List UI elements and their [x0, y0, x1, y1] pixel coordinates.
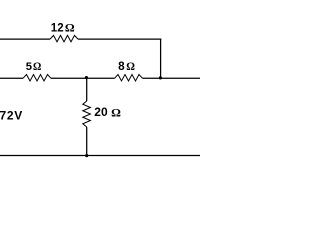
wire stem from node B down to R 20ohm	[86, 78, 88, 101]
svg-text:5: 5	[26, 61, 32, 73]
resistor R2 5ohm	[23, 75, 51, 82]
wire middle-right (R 8ohm to right edge)	[143, 77, 201, 79]
wire top-left (left edge to R 12ohm)	[0, 38, 50, 40]
node C junction dot	[159, 76, 162, 79]
svg-text:12: 12	[51, 23, 64, 35]
node D junction dot	[85, 154, 88, 157]
svg-text:Ω: Ω	[126, 61, 135, 73]
svg-text:20: 20	[94, 105, 108, 119]
wire stem from R 20ohm down to bottom wire	[86, 127, 88, 156]
svg-text:Ω: Ω	[111, 107, 121, 119]
wire right vertical drop	[160, 39, 162, 79]
wire middle (R 5ohm through node B to R 8ohm)	[51, 77, 115, 79]
svg-text:Ω: Ω	[65, 23, 75, 35]
svg-text:72V: 72V	[0, 109, 23, 123]
resistor R3 8ohm	[115, 75, 143, 82]
node B junction dot	[85, 76, 88, 79]
wire middle-left (left edge to R 5ohm)	[0, 77, 23, 79]
svg-text:8: 8	[118, 60, 125, 73]
wire bottom	[0, 155, 200, 157]
resistor R4 20ohm (vertical)	[83, 101, 91, 127]
svg-text:Ω: Ω	[33, 61, 41, 73]
resistor R1 12ohm	[50, 35, 78, 42]
wire top-right (R 12ohm to corner)	[78, 38, 161, 40]
